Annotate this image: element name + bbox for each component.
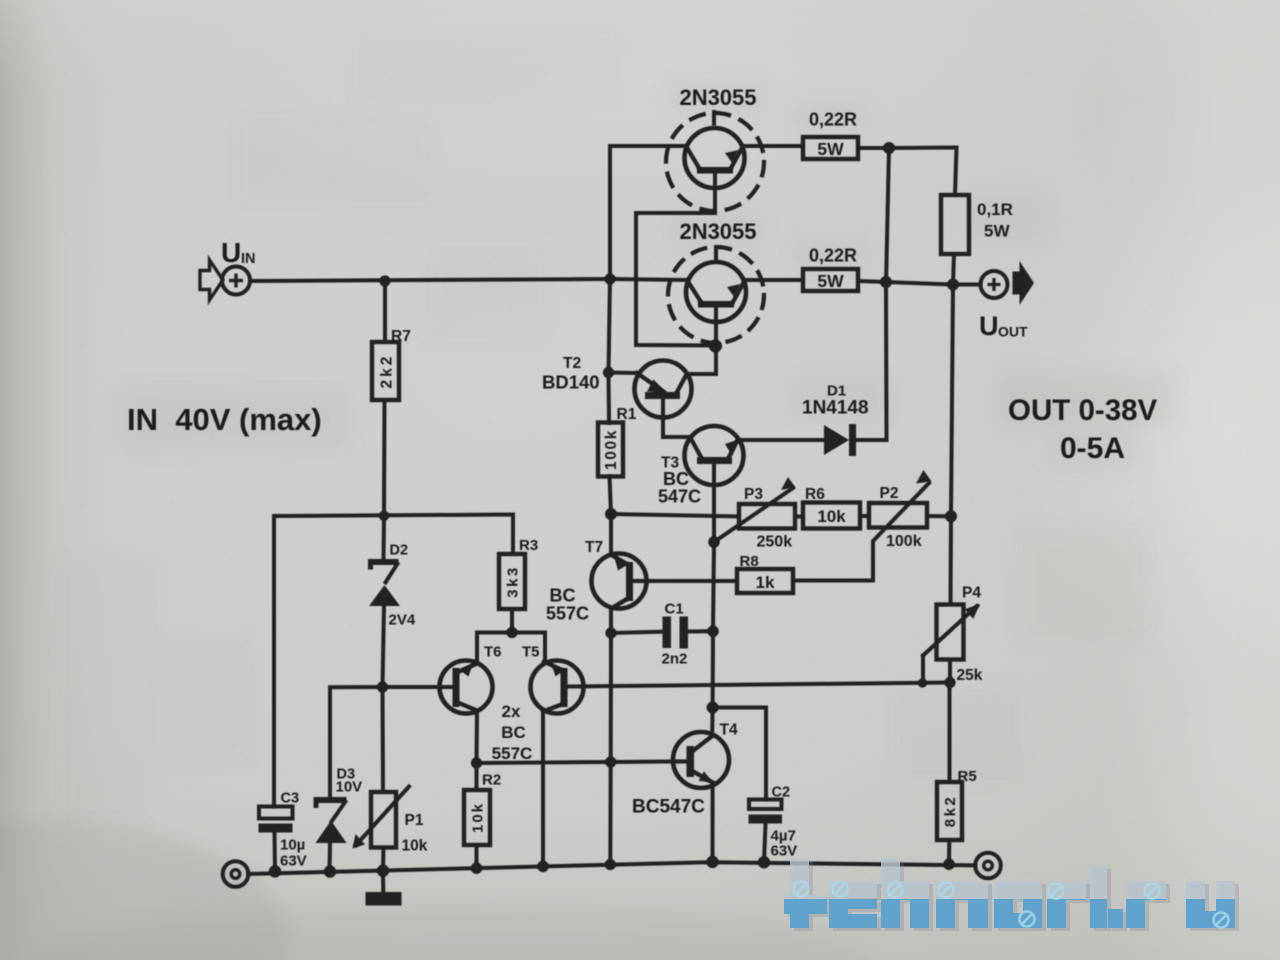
svg-text:C1: C1	[665, 601, 684, 618]
svg-text:T2: T2	[563, 355, 581, 372]
svg-text:R7: R7	[391, 328, 411, 345]
svg-text:8k2: 8k2	[942, 795, 959, 828]
svg-text:OUT 0-38V: OUT 0-38V	[1008, 394, 1158, 427]
svg-text:R5: R5	[958, 768, 977, 785]
svg-text:5W: 5W	[984, 222, 1010, 241]
svg-text:2x: 2x	[502, 702, 521, 721]
svg-text:P4: P4	[962, 585, 981, 602]
svg-text:5W: 5W	[817, 139, 844, 159]
svg-text:100k: 100k	[886, 533, 922, 550]
svg-text:BC: BC	[501, 723, 526, 742]
svg-text:25k: 25k	[957, 667, 983, 684]
svg-text:10k: 10k	[470, 802, 487, 833]
svg-text:IN: IN	[241, 251, 256, 267]
svg-text:0,22R: 0,22R	[809, 110, 857, 130]
svg-text:63V: 63V	[771, 843, 798, 860]
svg-text:P3: P3	[744, 486, 763, 503]
svg-text:R3: R3	[519, 537, 538, 554]
svg-text:P2: P2	[880, 485, 899, 502]
svg-text:2N3055: 2N3055	[679, 85, 756, 110]
svg-text:10k: 10k	[402, 838, 428, 855]
svg-text:1k: 1k	[756, 573, 775, 592]
svg-text:557C: 557C	[492, 744, 533, 763]
svg-text:547C: 547C	[658, 487, 701, 507]
svg-text:1N4148: 1N4148	[802, 398, 869, 419]
svg-text:10k: 10k	[817, 507, 846, 526]
svg-text:R2: R2	[482, 772, 501, 789]
svg-text:P1: P1	[405, 812, 424, 829]
svg-text:0,1R: 0,1R	[977, 200, 1013, 219]
svg-text:100k: 100k	[603, 429, 620, 470]
svg-text:10µ: 10µ	[280, 837, 305, 854]
svg-text:3k3: 3k3	[505, 565, 522, 598]
svg-text:BC547C: BC547C	[632, 797, 705, 818]
svg-text:2V4: 2V4	[389, 612, 416, 629]
svg-text:T7: T7	[585, 539, 603, 556]
svg-text:D2: D2	[390, 543, 409, 559]
svg-text:BC: BC	[550, 586, 576, 606]
svg-text:U: U	[979, 311, 999, 341]
svg-text:2N3055: 2N3055	[679, 219, 756, 244]
svg-text:0-5A: 0-5A	[1060, 432, 1125, 465]
svg-text:R1: R1	[617, 406, 637, 423]
svg-text:R8: R8	[740, 553, 759, 570]
svg-text:63V: 63V	[280, 853, 307, 870]
svg-text:557C: 557C	[546, 604, 589, 624]
svg-text:IN 40V (max): IN 40V (max)	[127, 402, 322, 437]
svg-text:2n2: 2n2	[662, 651, 688, 668]
svg-text:10V: 10V	[336, 779, 363, 796]
svg-text:T5: T5	[522, 644, 540, 661]
svg-text:R6: R6	[805, 486, 825, 503]
svg-text:C3: C3	[281, 791, 300, 807]
svg-text:5W: 5W	[817, 271, 844, 291]
svg-text:OUT: OUT	[998, 324, 1028, 340]
svg-text:T4: T4	[720, 722, 738, 739]
svg-text:250k: 250k	[757, 534, 793, 551]
svg-text:C2: C2	[772, 785, 791, 801]
svg-text:U: U	[221, 237, 241, 268]
svg-text:BD140: BD140	[542, 372, 600, 393]
svg-text:0,22R: 0,22R	[809, 246, 857, 266]
svg-text:2k2: 2k2	[379, 354, 396, 389]
svg-text:T6: T6	[484, 644, 502, 661]
